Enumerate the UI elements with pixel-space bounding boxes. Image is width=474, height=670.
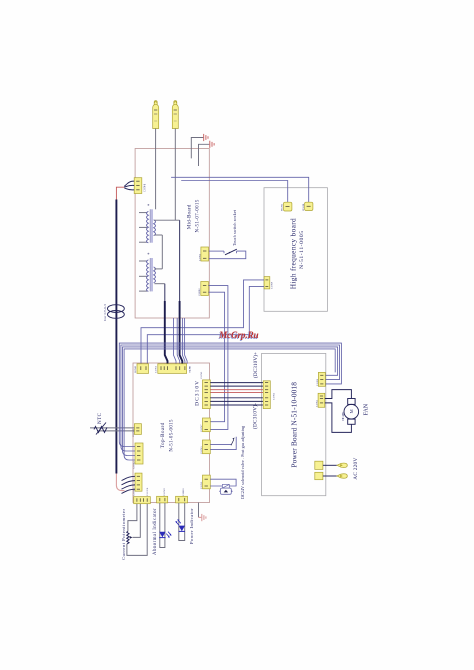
svg-text:DC310V: DC310V xyxy=(195,381,201,406)
label AC 220V xyxy=(353,458,359,480)
watermark McGrp.Ru xyxy=(217,330,258,341)
svg-text:CON5: CON5 xyxy=(200,446,203,454)
svg-text:Top-Board: Top-Board xyxy=(160,422,166,448)
svg-text:N-51-11-0005: N-51-11-0005 xyxy=(299,231,305,269)
board Power Board N-51-10-0018 outline xyxy=(262,353,326,495)
wire bundle loop d xyxy=(124,349,335,460)
wire red feed to CON6 xyxy=(116,187,124,199)
wire T1 to T2 link xyxy=(161,235,163,269)
svg-text:VAL-PIN: VAL-PIN xyxy=(189,366,192,373)
svg-text:PCON2: PCON2 xyxy=(281,203,284,211)
wire CON12 pin2 to top-board right connector xyxy=(208,292,224,422)
NTC thermistor xyxy=(90,423,134,435)
connector CON2 top-board left xyxy=(132,443,143,469)
wire probe P2 lead xyxy=(174,129,176,221)
gas adjusting valve symbol xyxy=(210,437,236,450)
wire CON3L harness curves xyxy=(122,476,136,493)
label DC24V solenoid valve Post gas adjusting xyxy=(240,426,245,499)
svg-text:N-51-07-0015: N-51-07-0015 xyxy=(195,199,200,232)
label (DC310V)+ xyxy=(252,352,259,378)
connector CON5 power-board right fan xyxy=(316,393,325,407)
wire bundle DC310V row2 xyxy=(210,385,263,387)
wire HF feed upper xyxy=(171,177,309,202)
svg-text:CON4: CON4 xyxy=(132,429,135,437)
potentiometer R xyxy=(127,531,133,544)
wire AC line 1 xyxy=(323,464,337,466)
wire bundle DC310V row3 red xyxy=(210,389,263,391)
svg-text:CON10: CON10 xyxy=(182,488,185,496)
board Top-Board N-51-05-0015 outline xyxy=(133,363,210,503)
label DC310V xyxy=(195,381,201,406)
svg-text:CON9: CON9 xyxy=(163,488,166,496)
svg-text:M: M xyxy=(349,409,354,413)
svg-text:CON7: CON7 xyxy=(200,424,203,432)
abnormal LED D1 xyxy=(159,532,171,538)
svg-text:Power Indicator: Power Indicator xyxy=(189,508,194,544)
wire pink tail to CON3 xyxy=(116,474,124,491)
svg-text:CON1: CON1 xyxy=(200,371,203,379)
label High frequency board xyxy=(289,218,306,289)
connector CON11 top-board top main xyxy=(155,364,192,374)
connector DC310V top-board right xyxy=(200,371,210,409)
connector CONA top-board bottom abnormal xyxy=(157,488,168,503)
svg-text:CON5: CON5 xyxy=(316,399,319,407)
svg-text:(DC310V)-: (DC310V)- xyxy=(252,403,259,429)
wire thin pair B2 xyxy=(185,318,188,364)
potentiometer wiring xyxy=(127,504,147,556)
wire thick secondary lead A with jog xyxy=(165,284,168,364)
svg-text:(DC310V)+: (DC310V)+ xyxy=(252,352,259,378)
label Current Potentiometer xyxy=(121,509,126,560)
power LED wiring xyxy=(179,503,185,541)
connector PCON1 on HF board xyxy=(302,202,313,210)
wire bundle DC310V row5 xyxy=(210,397,263,399)
wire bundle loop b xyxy=(121,345,340,451)
label Mid-Board xyxy=(186,199,200,232)
transformer T2 xyxy=(139,253,165,292)
wire CON12 pin1 to top-board right connector xyxy=(208,286,228,430)
wire stub to ground G3 xyxy=(199,503,202,518)
svg-text:CON10: CON10 xyxy=(134,365,137,373)
svg-text:CON2: CON2 xyxy=(273,392,276,400)
wire thin pair A2 xyxy=(177,318,180,364)
connector CON5 top-board right gas-adjust xyxy=(200,440,210,454)
svg-text:CON6: CON6 xyxy=(144,183,147,192)
wire bundle DC310V row4 red xyxy=(210,391,263,393)
wire bundle DC310V row6 xyxy=(210,400,263,402)
svg-text:Cur CT-0-5: Cur CT-0-5 xyxy=(103,304,107,321)
connector CON3L top-board bottom-left xyxy=(132,473,142,495)
svg-text:Power Board N-51-10-0018: Power Board N-51-10-0018 xyxy=(289,382,298,468)
AC spade terminal 1 xyxy=(337,463,347,467)
wire bundle loop c xyxy=(123,347,338,456)
label Abnormal Indicator xyxy=(153,508,158,555)
solenoid valve symbol xyxy=(219,484,233,494)
wire CON6 harness curves xyxy=(124,181,134,190)
svg-text:High frequency board: High frequency board xyxy=(289,218,298,289)
connector CON3 top-board right solenoid xyxy=(200,475,210,489)
svg-text:CON12: CON12 xyxy=(198,288,201,296)
ground G3 xyxy=(202,514,206,521)
wire fan loop lower xyxy=(325,403,352,433)
label Cur CT-0-5 xyxy=(103,304,107,321)
svg-text:Abnormal Indicator: Abnormal Indicator xyxy=(153,508,158,555)
fan motor M xyxy=(341,399,358,425)
board High frequency board N-51-11-0005 outline xyxy=(264,188,327,312)
solenoid valve loop wire xyxy=(210,479,236,486)
AC spade terminal 2 xyxy=(337,474,347,478)
wire thick secondary lead B with jog xyxy=(180,220,183,364)
svg-text:FAN: FAN xyxy=(364,403,370,415)
svg-text:Touch switch socket: Touch switch socket xyxy=(232,209,237,246)
touch switch socket symbol xyxy=(209,249,246,259)
connector CON7 top-board right mid xyxy=(200,418,210,432)
svg-text:PCON1: PCON1 xyxy=(302,203,305,211)
connector CON1 top-board top-left xyxy=(134,364,149,374)
wire AC line 2 xyxy=(323,475,337,477)
wire thin pair B1 xyxy=(182,318,185,364)
svg-text:CON3: CON3 xyxy=(200,481,203,489)
svg-text:CON8: CON8 xyxy=(316,378,319,386)
label Touch switch socket xyxy=(232,209,237,246)
svg-text:N-51-05-0015: N-51-05-0015 xyxy=(170,419,175,452)
svg-text:McGrp.Ru: McGrp.Ru xyxy=(218,330,259,340)
connector CON4 top-board left NTC xyxy=(132,424,142,437)
connector CON6 mid-board left xyxy=(134,178,146,194)
label Top-Board xyxy=(160,419,175,452)
connector CON6B top-board bottom potentiometer xyxy=(134,487,151,504)
wire HF CON9 pin1 to top-board CON1 xyxy=(141,280,264,364)
wire fan loop upper xyxy=(325,390,352,399)
connector CON12 mid-board right lower xyxy=(198,282,208,296)
connector CON2 power-board left xyxy=(263,381,275,409)
svg-text:CON2: CON2 xyxy=(132,461,135,469)
connector SQA power-board AC xyxy=(315,461,323,469)
label FAN xyxy=(364,403,370,415)
label NTC xyxy=(98,412,103,424)
svg-text:CON1: CON1 xyxy=(155,365,158,373)
abnormal LED wiring xyxy=(160,503,165,548)
connector CONP top-board bottom power-led xyxy=(176,488,188,503)
label Power Indicator xyxy=(189,508,194,544)
wire HF feed lower xyxy=(181,181,288,203)
label Power Board xyxy=(289,382,298,468)
connector SQB power-board AC xyxy=(315,472,323,479)
torch electrode probe P1 xyxy=(153,101,159,129)
svg-text:DC24V solenoid valve . Post ga: DC24V solenoid valve . Post gas adjustin… xyxy=(240,426,245,499)
power LED D2 xyxy=(175,519,185,531)
connector CON9 on HF board left xyxy=(264,277,273,289)
svg-text:NTC: NTC xyxy=(98,412,103,424)
transformer T1 xyxy=(139,204,180,243)
svg-text:AC 220V: AC 220V xyxy=(353,458,359,480)
wire bundle DC310V row7 xyxy=(210,404,263,406)
svg-text:Current Potentiometer: Current Potentiometer xyxy=(121,509,126,560)
wire to ground G2 xyxy=(199,144,210,166)
current transformer CT xyxy=(108,305,125,319)
svg-text:CON6: CON6 xyxy=(146,487,149,496)
svg-text:DC 24V: DC 24V xyxy=(341,411,345,421)
connector PCON2 on HF board xyxy=(281,202,292,211)
torch electrode probe P2 xyxy=(172,101,178,129)
ground G1 xyxy=(204,134,208,141)
connector CON2 mid-board right (touch switch) xyxy=(198,247,208,261)
label (DC310V)- xyxy=(252,403,259,429)
wire thin pair A1 xyxy=(174,318,177,364)
svg-text:CON2: CON2 xyxy=(198,253,201,261)
connector CON8 power-board right xyxy=(316,372,326,386)
wire HF CON9 pin2 to top-board CON1 xyxy=(147,286,264,363)
wire main torch thick lead xyxy=(115,200,117,474)
wire to ground G1 xyxy=(191,138,203,159)
wire probe P1 lead xyxy=(155,129,157,210)
board Mid-Board N-51-07-0015 outline xyxy=(135,149,209,319)
wire bundle loop a xyxy=(119,343,341,446)
ground G2 xyxy=(210,141,214,148)
svg-text:Mid-Board: Mid-Board xyxy=(186,204,192,229)
svg-text:CON9: CON9 xyxy=(271,281,274,289)
wire bundle DC310V row1 xyxy=(210,382,263,384)
